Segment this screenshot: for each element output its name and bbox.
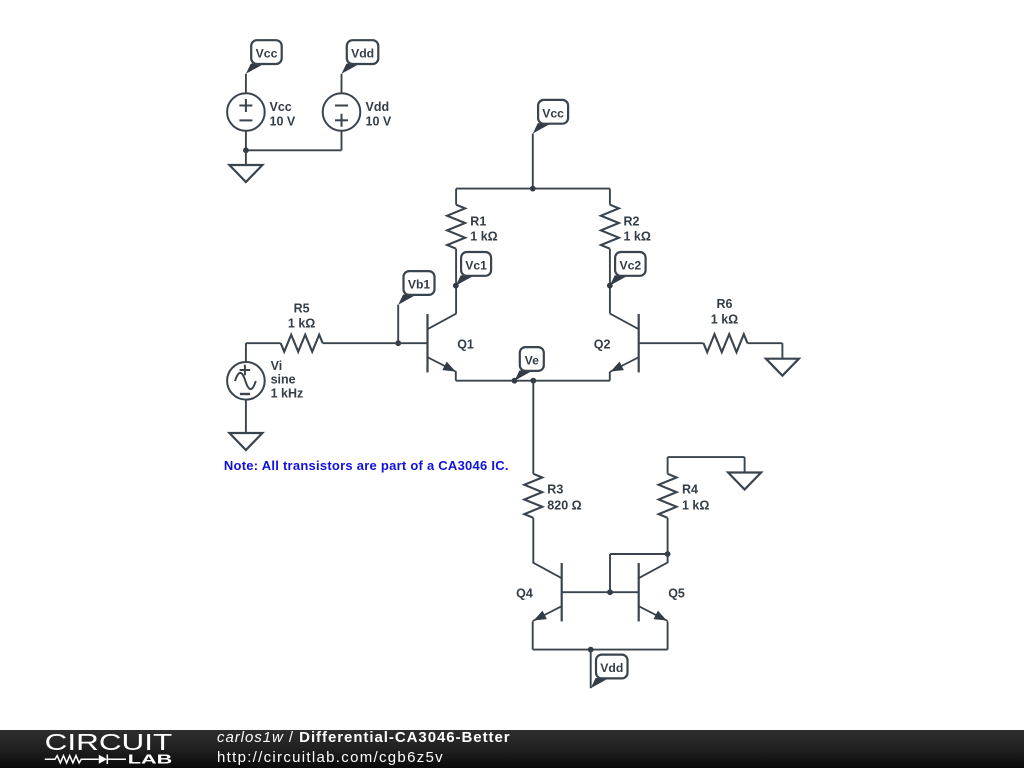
svg-text:1 kΩ: 1 kΩ bbox=[288, 316, 315, 330]
transistor Q4 bbox=[516, 562, 562, 621]
net flag Vc1 bbox=[456, 252, 491, 286]
junction Vcc rail bbox=[530, 186, 536, 192]
footer bar bbox=[0, 730, 1024, 768]
wire Vcc flag to rail bbox=[532, 134, 534, 189]
wire Q4 base to Q5 base bbox=[562, 591, 639, 593]
resistor R5 bbox=[281, 335, 323, 352]
svg-text:Vc2: Vc2 bbox=[619, 258, 641, 272]
wire V2 bottom bbox=[341, 131, 343, 150]
ground for R6 bbox=[766, 359, 799, 376]
svg-text:1 kΩ: 1 kΩ bbox=[682, 499, 709, 513]
svg-text:Vc1: Vc1 bbox=[465, 258, 487, 272]
svg-text:Q2: Q2 bbox=[594, 338, 611, 352]
junction Q5 collector R4 bbox=[665, 551, 671, 557]
svg-text:R1: R1 bbox=[470, 215, 486, 229]
svg-text:10 V: 10 V bbox=[366, 115, 392, 129]
wire Ve to R3 bbox=[532, 381, 534, 474]
wire Vi to R5 bbox=[246, 342, 281, 344]
junction Vdd stub bbox=[588, 647, 594, 653]
net flag Vb1 bbox=[398, 271, 434, 305]
junction Vc1 node bbox=[453, 283, 459, 289]
transistor Q1 bbox=[428, 313, 474, 372]
junction Q1 base node bbox=[395, 340, 401, 346]
net flag Ve bbox=[515, 347, 544, 381]
svg-text:Note: All transistors are part: Note: All transistors are part of a CA30… bbox=[224, 458, 509, 473]
wire Q2 emitter lead bbox=[609, 372, 611, 381]
wire R1 top lead bbox=[455, 189, 457, 205]
voltage source Vi sine 1 kHz bbox=[227, 362, 265, 400]
wire emitter bottom rail bbox=[533, 649, 668, 651]
net flag Vdd (source V2) bbox=[342, 40, 379, 74]
voltage source V1 Vcc 10 V bbox=[227, 93, 265, 131]
svg-text:10 V: 10 V bbox=[270, 115, 296, 129]
wire Vcc rail bbox=[456, 188, 610, 190]
wire R4 to ground corner bbox=[668, 456, 745, 458]
svg-text:Vdd: Vdd bbox=[366, 100, 390, 114]
svg-text:R2: R2 bbox=[624, 215, 640, 229]
svg-text:Vdd: Vdd bbox=[351, 47, 374, 61]
junction V1 ground node bbox=[243, 147, 249, 153]
junction Vc2 node bbox=[607, 283, 613, 289]
wire R2 to Q2 collector bbox=[609, 249, 611, 314]
svg-text:R4: R4 bbox=[682, 483, 698, 497]
resistor R6 bbox=[704, 334, 748, 352]
wire Q2 base to R6 bbox=[639, 342, 704, 344]
svg-text:1 kΩ: 1 kΩ bbox=[711, 313, 738, 327]
svg-text:1 kΩ: 1 kΩ bbox=[470, 230, 497, 244]
wire V1 bottom bbox=[245, 131, 247, 150]
svg-text:sine: sine bbox=[271, 373, 296, 387]
wire down to Vi source bbox=[245, 343, 247, 361]
junction Ve to R3 bbox=[530, 378, 536, 384]
net flag Vdd (mirror) bbox=[591, 655, 628, 689]
wire R2 top lead bbox=[609, 189, 611, 205]
wire Vb1 to base bbox=[397, 305, 399, 344]
wire Q4 emitter lead bbox=[532, 621, 534, 649]
svg-text:Vcc: Vcc bbox=[542, 106, 564, 120]
net flag Vc2 bbox=[610, 252, 646, 286]
svg-text:R6: R6 bbox=[717, 297, 733, 311]
svg-text:LAB: LAB bbox=[128, 752, 173, 767]
ground for R4 bbox=[728, 473, 761, 490]
footer title line bbox=[217, 729, 511, 746]
wire R4 top lead bbox=[667, 457, 669, 474]
svg-text:Vi: Vi bbox=[271, 359, 283, 373]
wire R4 bottom lead bbox=[667, 518, 669, 554]
ground for sources bbox=[229, 165, 262, 182]
resistor R2 bbox=[601, 205, 619, 249]
svg-text:R3: R3 bbox=[547, 483, 563, 497]
wire V1-V2 common bbox=[246, 149, 342, 151]
wire emitter rail Ve bbox=[456, 380, 610, 382]
junction Ve flag node bbox=[512, 378, 518, 384]
svg-text:820 Ω: 820 Ω bbox=[547, 499, 581, 513]
wire down to R4 ground bbox=[744, 457, 746, 472]
net flag Vcc (source V1) bbox=[246, 40, 282, 74]
CircuitLab logo resistor-diode glyph bbox=[45, 755, 126, 765]
wire down to ground bbox=[781, 343, 783, 359]
svg-text:R5: R5 bbox=[294, 302, 310, 316]
wire Vdd flag to V2 top bbox=[341, 74, 343, 94]
svg-text:1 kΩ: 1 kΩ bbox=[624, 230, 651, 244]
resistor R3 bbox=[524, 474, 542, 518]
wire base tie up bbox=[609, 554, 611, 592]
resistor R1 bbox=[447, 205, 465, 249]
wire base tie to R4 node bbox=[610, 553, 668, 555]
svg-text:1 kHz: 1 kHz bbox=[271, 386, 304, 400]
wire Vi to ground bbox=[245, 400, 247, 433]
footer url line bbox=[217, 749, 444, 766]
wire Vcc flag to V1 top bbox=[245, 74, 247, 94]
svg-text:Q4: Q4 bbox=[516, 587, 533, 601]
ground for Vi bbox=[229, 433, 262, 450]
net flag Vcc (rail) bbox=[533, 100, 568, 134]
wire R1 to Q1 collector bbox=[455, 249, 457, 314]
svg-text:Vb1: Vb1 bbox=[408, 278, 431, 292]
junction base tie bbox=[607, 589, 613, 595]
wire R3 to Q4 collector bbox=[532, 518, 534, 563]
voltage source V2 Vdd 10 V (inverted) bbox=[323, 93, 361, 131]
resistor R4 bbox=[659, 474, 677, 518]
svg-text:Vcc: Vcc bbox=[270, 100, 292, 114]
wire to ground bbox=[245, 150, 247, 165]
svg-text:Q5: Q5 bbox=[668, 587, 685, 601]
wire Q5 emitter lead bbox=[667, 621, 669, 649]
wire Vdd stub bbox=[590, 650, 592, 689]
wire R5 to Q1 base bbox=[323, 342, 428, 344]
wire R6 to ground corner bbox=[748, 342, 783, 344]
svg-text:Q1: Q1 bbox=[457, 338, 474, 352]
wire Q1 emitter lead bbox=[455, 372, 457, 381]
svg-text:Vcc: Vcc bbox=[256, 47, 278, 61]
svg-text:Vdd: Vdd bbox=[600, 661, 623, 675]
transistor Q2 bbox=[594, 313, 639, 372]
wire Q5 collector lead bbox=[667, 554, 669, 563]
svg-text:Ve: Ve bbox=[525, 354, 539, 368]
transistor Q5 bbox=[639, 562, 685, 621]
